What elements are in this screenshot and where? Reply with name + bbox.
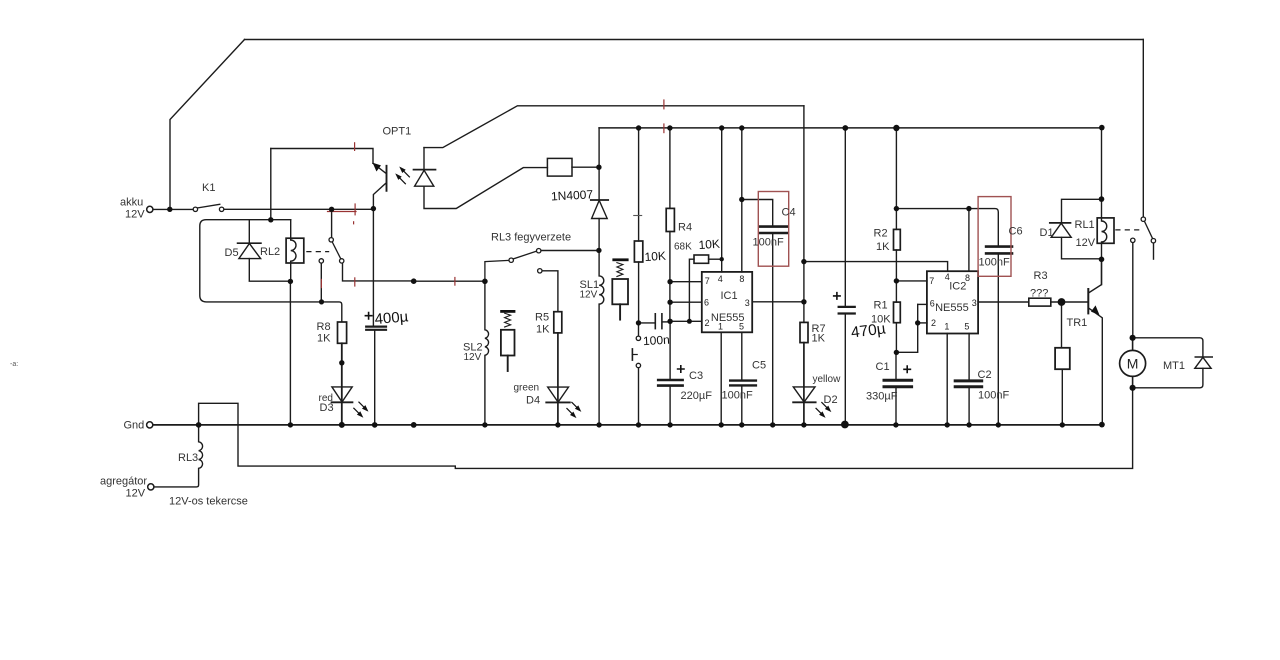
svg-text:yellow: yellow bbox=[813, 374, 842, 385]
svg-text:12V: 12V bbox=[1076, 237, 1096, 249]
svg-text:C2: C2 bbox=[978, 369, 992, 381]
svg-text:IC2: IC2 bbox=[949, 281, 966, 293]
svg-text:100nF: 100nF bbox=[722, 390, 753, 402]
svg-text:68K: 68K bbox=[674, 242, 692, 253]
svg-text:12V: 12V bbox=[464, 352, 482, 363]
svg-text:R3: R3 bbox=[1034, 270, 1048, 282]
svg-text:12V: 12V bbox=[126, 488, 146, 500]
svg-text:12V: 12V bbox=[125, 209, 145, 221]
svg-text:???: ??? bbox=[1030, 288, 1048, 300]
svg-text:1K: 1K bbox=[317, 333, 331, 345]
svg-text:D4: D4 bbox=[526, 395, 540, 407]
svg-text:agregátor: agregátor bbox=[100, 476, 147, 488]
svg-text:OPT1: OPT1 bbox=[383, 126, 412, 138]
svg-text:RL1: RL1 bbox=[1075, 219, 1095, 231]
svg-text:10K: 10K bbox=[644, 249, 666, 264]
svg-text:2: 2 bbox=[931, 318, 936, 328]
svg-text:400µ: 400µ bbox=[374, 308, 409, 328]
svg-text:5: 5 bbox=[964, 322, 969, 332]
svg-text:Gnd: Gnd bbox=[124, 420, 145, 432]
svg-text:3: 3 bbox=[972, 298, 977, 308]
svg-text:RL3: RL3 bbox=[178, 452, 198, 464]
svg-text:1K: 1K bbox=[876, 241, 890, 253]
svg-text:100nF: 100nF bbox=[978, 390, 1009, 402]
svg-text:330µF: 330µF bbox=[866, 391, 898, 403]
svg-text:D2: D2 bbox=[824, 394, 838, 406]
svg-text:TR1: TR1 bbox=[1067, 317, 1088, 329]
svg-text:2: 2 bbox=[704, 318, 709, 328]
svg-text:1: 1 bbox=[944, 322, 949, 332]
svg-text:D5: D5 bbox=[225, 247, 239, 259]
svg-text:3: 3 bbox=[745, 298, 750, 308]
svg-text:green: green bbox=[514, 383, 540, 394]
svg-text:MT1: MT1 bbox=[1163, 360, 1185, 372]
svg-text:K1: K1 bbox=[202, 182, 215, 194]
svg-text:4: 4 bbox=[718, 274, 723, 284]
svg-text:8: 8 bbox=[739, 274, 744, 284]
svg-text:10K: 10K bbox=[698, 237, 720, 252]
svg-text:12V-os tekercse: 12V-os tekercse bbox=[169, 496, 248, 508]
svg-text:IC1: IC1 bbox=[720, 290, 737, 302]
svg-text:R4: R4 bbox=[678, 222, 692, 234]
svg-text:6: 6 bbox=[704, 298, 709, 308]
svg-text:D1: D1 bbox=[1040, 227, 1054, 239]
svg-text:D3: D3 bbox=[320, 402, 334, 414]
svg-text:R5: R5 bbox=[535, 312, 549, 324]
svg-text:100nF: 100nF bbox=[753, 237, 784, 249]
svg-text:1K: 1K bbox=[812, 333, 826, 345]
svg-text:7: 7 bbox=[705, 276, 710, 286]
svg-text:C3: C3 bbox=[689, 370, 703, 382]
svg-text:C6: C6 bbox=[1009, 226, 1023, 238]
svg-text:M: M bbox=[1127, 356, 1139, 372]
svg-text:R2: R2 bbox=[874, 228, 888, 240]
svg-text:RL2: RL2 bbox=[260, 246, 280, 258]
svg-text:NE555: NE555 bbox=[935, 302, 969, 314]
svg-text:100nF: 100nF bbox=[979, 257, 1010, 269]
svg-text:220µF: 220µF bbox=[681, 390, 713, 402]
svg-text:1N4007: 1N4007 bbox=[551, 187, 594, 203]
svg-text:1K: 1K bbox=[536, 324, 550, 336]
svg-text:1: 1 bbox=[718, 322, 723, 332]
svg-text:5: 5 bbox=[739, 322, 744, 332]
svg-text:R1: R1 bbox=[874, 300, 888, 312]
svg-text:C5: C5 bbox=[752, 360, 766, 372]
svg-text:7: 7 bbox=[929, 276, 934, 286]
svg-text:100n: 100n bbox=[643, 333, 670, 348]
svg-text:RL3 fegyverzete: RL3 fegyverzete bbox=[491, 232, 571, 244]
svg-text:12V: 12V bbox=[580, 290, 598, 301]
svg-text:akku: akku bbox=[120, 197, 143, 209]
svg-text:6: 6 bbox=[930, 298, 935, 308]
svg-text:C1: C1 bbox=[876, 361, 890, 373]
svg-text:-a:: -a: bbox=[10, 361, 18, 368]
svg-text:R8: R8 bbox=[317, 321, 331, 333]
svg-text:C4: C4 bbox=[782, 207, 796, 219]
